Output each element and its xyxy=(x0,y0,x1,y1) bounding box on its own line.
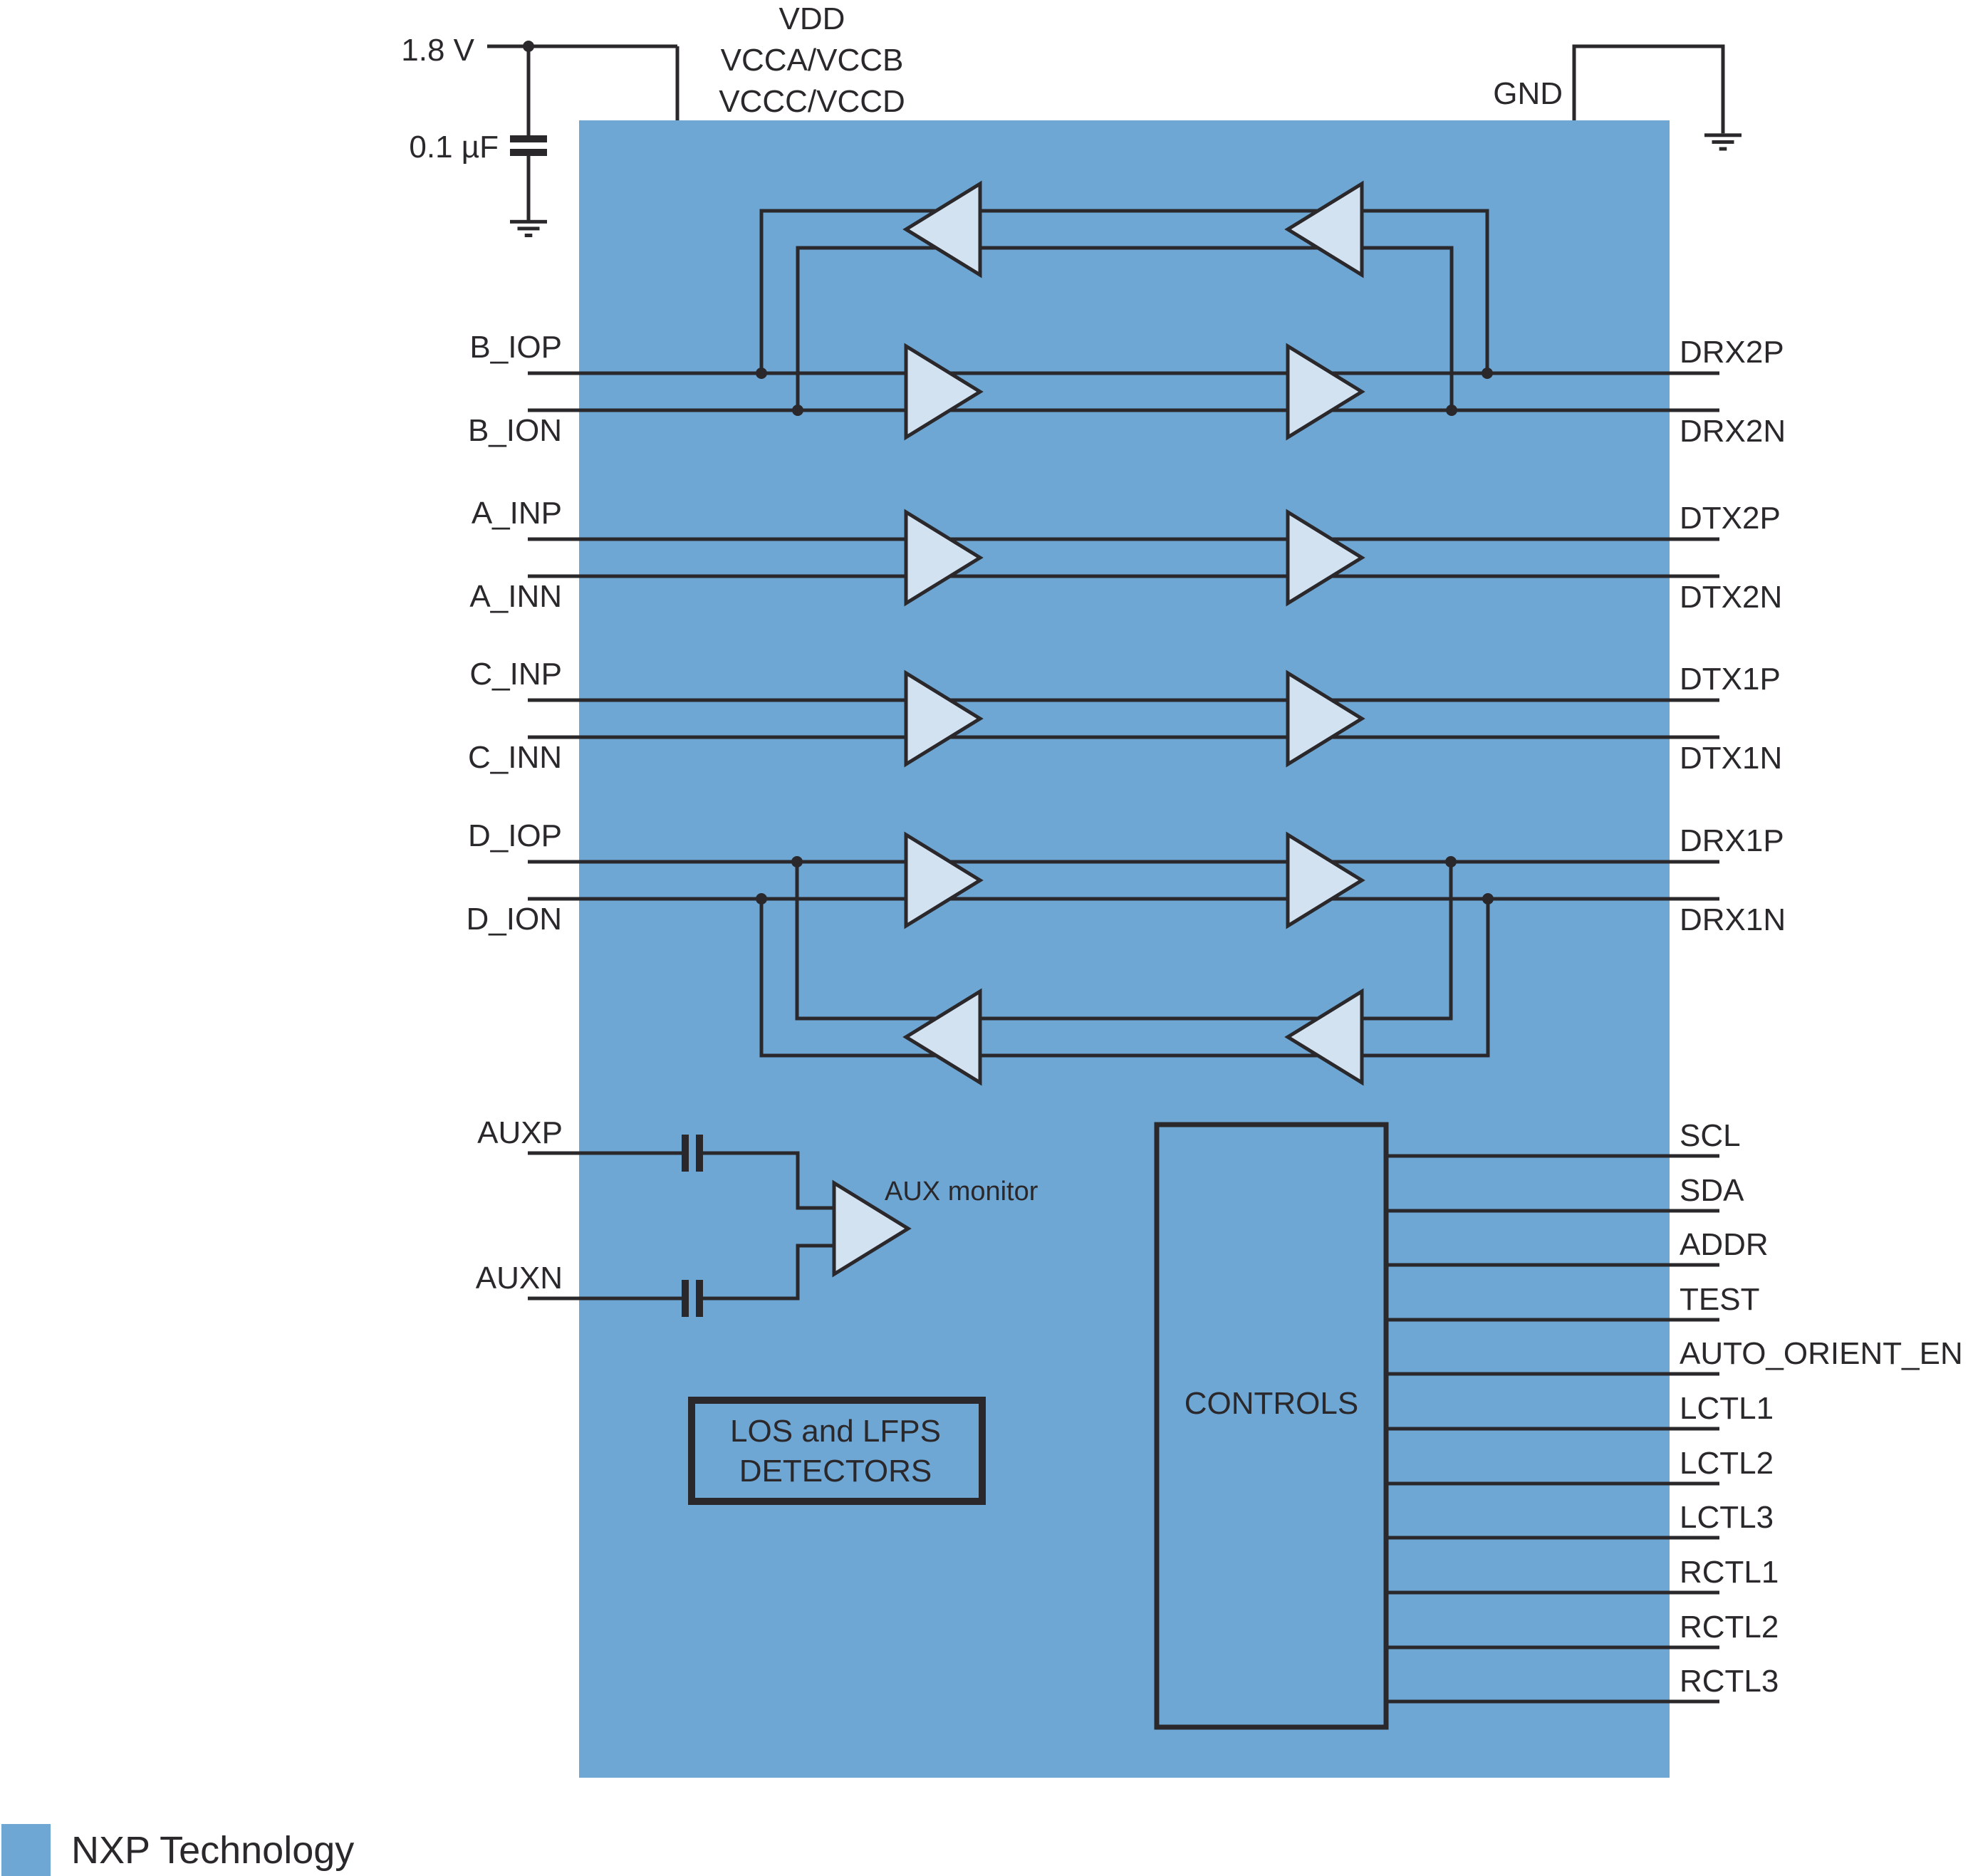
node D_IOP tap xyxy=(791,856,803,867)
wire B_IOP to DRX2P xyxy=(528,372,1719,375)
svg-text:DRX2N: DRX2N xyxy=(1680,414,1786,449)
wire D_ION to DRX1N xyxy=(528,897,1719,901)
svg-text:DRX1N: DRX1N xyxy=(1680,902,1786,937)
svg-text:VDD: VDD xyxy=(779,1,845,36)
svg-text:DRX1P: DRX1P xyxy=(1680,823,1784,858)
wire LCTL1 xyxy=(1386,1427,1719,1431)
buffer D reverse right xyxy=(1288,991,1362,1083)
wire 1.8V rail xyxy=(487,46,677,135)
svg-text:RCTL3: RCTL3 xyxy=(1680,1664,1779,1699)
wire B reverse lower loop xyxy=(798,248,1452,410)
capacitor AUXN coupling xyxy=(682,1280,689,1317)
buffer B forward right xyxy=(1288,346,1362,437)
wire D reverse lower loop xyxy=(761,899,1488,1056)
buffer AUX monitor xyxy=(834,1183,908,1274)
svg-text:SCL: SCL xyxy=(1680,1118,1741,1153)
node DRX2P tap xyxy=(1482,368,1493,379)
svg-text:RCTL1: RCTL1 xyxy=(1680,1555,1779,1590)
wire RCTL1 xyxy=(1386,1591,1719,1595)
node D_ION tap xyxy=(756,893,767,905)
wire TEST xyxy=(1386,1318,1719,1322)
wire SDA xyxy=(1386,1209,1719,1213)
svg-text:LCTL1: LCTL1 xyxy=(1680,1391,1774,1426)
buffer A forward right xyxy=(1288,512,1362,603)
buffer A forward left xyxy=(906,512,980,603)
buffer B forward left xyxy=(906,346,980,437)
svg-text:ADDR: ADDR xyxy=(1680,1227,1769,1262)
chip body (blue block) xyxy=(579,120,1670,1778)
svg-text:D_ION: D_ION xyxy=(467,902,562,937)
svg-text:TEST: TEST xyxy=(1680,1282,1759,1317)
ground (left) xyxy=(510,220,547,237)
LOS and LFPS DETECTORS box xyxy=(692,1400,982,1501)
wire B reverse upper loop xyxy=(761,211,1487,373)
node junction 1.8V/C1 xyxy=(523,41,534,52)
svg-text:LCTL2: LCTL2 xyxy=(1680,1446,1774,1481)
buffer D reverse left xyxy=(906,991,980,1083)
buffer C forward left xyxy=(906,673,980,764)
capacitor C1 plates xyxy=(510,135,547,142)
svg-text:1.8 V: 1.8 V xyxy=(401,33,474,68)
wire LCTL3 xyxy=(1386,1536,1719,1540)
ground (right) xyxy=(1704,133,1741,150)
svg-text:AUXP: AUXP xyxy=(477,1115,563,1150)
svg-text:DTX2P: DTX2P xyxy=(1680,501,1781,536)
wire ADDR xyxy=(1386,1263,1719,1267)
svg-text:C_INN: C_INN xyxy=(468,740,562,775)
wire D reverse upper loop xyxy=(797,862,1451,1018)
wire B_ION to DRX2N xyxy=(528,409,1719,412)
svg-text:LCTL3: LCTL3 xyxy=(1680,1500,1774,1535)
svg-text:DTX1P: DTX1P xyxy=(1680,662,1781,697)
svg-text:A_INP: A_INP xyxy=(472,496,562,531)
wire SCL xyxy=(1386,1155,1719,1158)
wire AUXP xyxy=(528,1153,834,1208)
svg-text:B_ION: B_ION xyxy=(468,413,562,448)
svg-text:D_IOP: D_IOP xyxy=(468,818,562,853)
wire C_INN to DTX1N xyxy=(528,736,1719,739)
svg-text:VCCA/VCCB: VCCA/VCCB xyxy=(721,43,904,78)
capacitor AUXP coupling xyxy=(682,1135,689,1172)
svg-text:RCTL2: RCTL2 xyxy=(1680,1610,1779,1645)
wire RCTL3 xyxy=(1386,1700,1719,1704)
svg-text:LOS and LFPS: LOS and LFPS xyxy=(730,1414,941,1449)
buffer D forward right xyxy=(1288,835,1362,926)
svg-text:C_INP: C_INP xyxy=(469,657,562,692)
svg-text:DTX2N: DTX2N xyxy=(1680,580,1782,615)
wire AUXN xyxy=(528,1246,834,1298)
node B_ION tap xyxy=(792,405,803,416)
buffer C forward right xyxy=(1288,673,1362,764)
svg-text:SDA: SDA xyxy=(1680,1173,1744,1208)
CONTROLS block xyxy=(1157,1125,1386,1727)
wire GND pin xyxy=(1574,46,1723,133)
buffer B reverse left xyxy=(906,184,980,275)
buffer B reverse right xyxy=(1288,184,1362,275)
svg-text:B_IOP: B_IOP xyxy=(469,330,562,365)
node DRX1N tap xyxy=(1482,893,1494,905)
legend swatch xyxy=(1,1824,51,1876)
svg-text:0.1 µF: 0.1 µF xyxy=(409,130,499,165)
svg-text:DTX1N: DTX1N xyxy=(1680,741,1782,776)
wire C1 to ground xyxy=(527,156,531,220)
wire D_IOP to DRX1P xyxy=(528,860,1719,864)
wire LCTL2 xyxy=(1386,1482,1719,1486)
wire C_INP to DTX1P xyxy=(528,699,1719,702)
svg-text:AUX monitor: AUX monitor xyxy=(885,1177,1038,1207)
node DRX2N tap xyxy=(1446,405,1457,416)
svg-text:AUTO_ORIENT_EN: AUTO_ORIENT_EN xyxy=(1680,1336,1963,1371)
svg-text:GND: GND xyxy=(1493,76,1563,111)
node DRX1P tap xyxy=(1445,856,1457,867)
node B_IOP tap xyxy=(756,368,767,379)
svg-text:DRX2P: DRX2P xyxy=(1680,335,1784,370)
wire AUTO_ORIENT_EN xyxy=(1386,1372,1719,1376)
svg-text:CONTROLS: CONTROLS xyxy=(1185,1386,1358,1421)
svg-text:VCCC/VCCD: VCCC/VCCD xyxy=(719,84,905,119)
svg-text:DETECTORS: DETECTORS xyxy=(739,1454,932,1489)
svg-text:NXP Technology: NXP Technology xyxy=(71,1829,354,1872)
wire RCTL2 xyxy=(1386,1646,1719,1650)
wire A_INN to DTX2N xyxy=(528,575,1719,578)
svg-text:A_INN: A_INN xyxy=(469,579,562,614)
buffer D forward left xyxy=(906,835,980,926)
wire A_INP to DTX2P xyxy=(528,538,1719,541)
svg-text:AUXN: AUXN xyxy=(476,1261,563,1296)
